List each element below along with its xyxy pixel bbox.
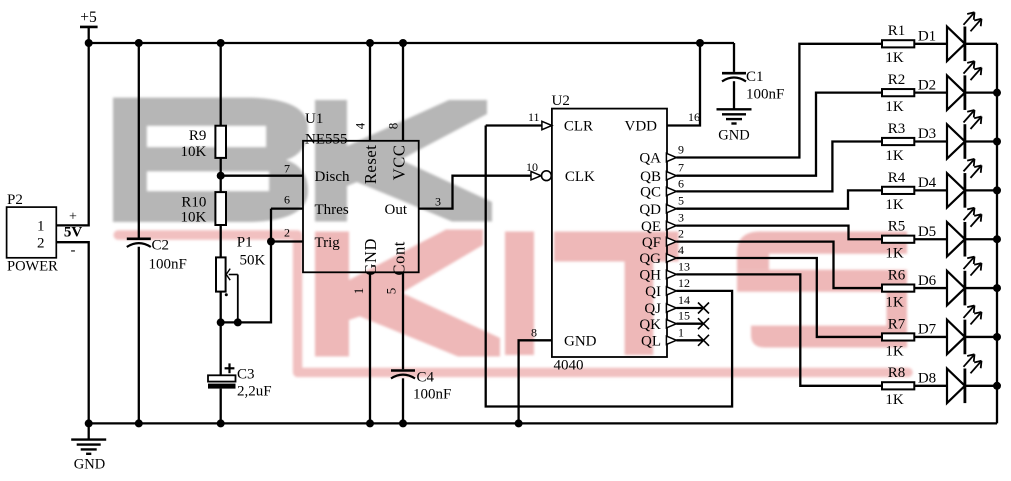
stub U2 QL pin1 not connected	[676, 339, 703, 341]
resistor R4 1K	[882, 170, 914, 213]
wire R4 to D4	[914, 189, 947, 191]
wire U2 QC pin6 to R3	[676, 142, 882, 192]
svg-text:Out: Out	[385, 202, 408, 218]
potentiometer P1 50K	[216, 235, 266, 323]
svg-text:GND: GND	[74, 457, 105, 473]
junction C1 / U2 VDD	[696, 39, 704, 47]
LED D8	[918, 354, 982, 403]
svg-text:R2: R2	[888, 72, 906, 88]
svg-text:CLR: CLR	[564, 119, 593, 135]
svg-text:R6: R6	[888, 267, 906, 283]
QB output chevron	[666, 172, 676, 180]
resistor R9 10K	[181, 43, 226, 192]
svg-text:8: 8	[386, 123, 401, 130]
svg-text:VCC: VCC	[389, 145, 408, 181]
svg-text:D1: D1	[918, 29, 936, 45]
svg-text:2: 2	[284, 226, 290, 240]
wire U1 pin8 VCC to rail	[402, 43, 404, 141]
wire U2 CLR pin11	[486, 124, 542, 126]
QE output chevron	[666, 221, 676, 229]
wire Thres pin6	[271, 207, 303, 209]
junction R9/R10/Disch	[217, 172, 225, 180]
resistor R7 1K	[882, 316, 914, 359]
svg-text:13: 13	[678, 259, 690, 273]
svg-text:4040: 4040	[554, 358, 584, 374]
wire U2 QG pin4 to R7	[676, 258, 882, 337]
svg-text:1K: 1K	[885, 148, 904, 164]
junction Trig	[267, 238, 275, 246]
svg-text:D5: D5	[918, 224, 936, 240]
svg-text:100nF: 100nF	[149, 257, 187, 273]
wire P1 wiper down	[237, 275, 239, 323]
QA output chevron	[666, 153, 676, 161]
junction ground C3	[217, 419, 225, 427]
QC output chevron	[666, 187, 676, 195]
junction U1 pin4	[366, 39, 374, 47]
svg-text:1K: 1K	[885, 343, 904, 359]
resistor R5 1K	[882, 219, 914, 262]
watermark pink letter I	[505, 232, 534, 356]
wire R6 to D6	[914, 287, 947, 289]
wire D4 cathode to LED rail	[965, 189, 997, 191]
capacitor C4 100nF	[391, 370, 451, 424]
svg-text:C1: C1	[746, 69, 764, 85]
svg-text:6: 6	[284, 193, 290, 207]
wire Disch pin7	[221, 175, 303, 177]
stub U2 QK pin15 not connected	[676, 323, 703, 325]
watermark pink underline swoosh	[118, 235, 908, 372]
wire U2 QB pin7 to R2	[676, 93, 882, 176]
junction wiper row right	[234, 318, 242, 326]
svg-text:1K: 1K	[885, 392, 904, 408]
QI output chevron	[666, 287, 676, 295]
svg-text:QF: QF	[642, 235, 661, 251]
wire P2 pin1 to +5 rail	[56, 43, 88, 225]
svg-text:50K: 50K	[240, 253, 266, 269]
wire Trig pin2	[271, 240, 303, 242]
svg-text:Thres: Thres	[315, 202, 349, 218]
wire D8 cathode to LED rail	[965, 385, 997, 387]
svg-text:5: 5	[678, 194, 684, 208]
svg-text:D2: D2	[918, 77, 936, 93]
svg-text:D8: D8	[918, 370, 936, 386]
wire LED cathode rail	[996, 44, 998, 424]
junction ground U1 pin1	[366, 419, 374, 427]
junction LED rail row 6	[993, 284, 1001, 292]
wire U1 pin4 Reset to rail	[369, 43, 371, 141]
wire D3 cathode to LED rail	[965, 140, 997, 142]
svg-text:2,2uF: 2,2uF	[237, 384, 272, 400]
wire CLR loop to QI pin12	[486, 126, 732, 407]
svg-text:P2: P2	[7, 192, 23, 208]
svg-text:QG: QG	[639, 251, 661, 267]
svg-text:POWER: POWER	[7, 259, 58, 275]
CLK inversion bubble	[542, 171, 552, 181]
svg-text:3: 3	[435, 195, 441, 209]
svg-text:2: 2	[678, 227, 684, 241]
svg-text:+: +	[69, 210, 77, 225]
wire ground rail	[89, 422, 997, 424]
ground symbol C1	[717, 108, 752, 110]
QF output chevron	[666, 237, 676, 245]
junction LED rail row 4	[993, 186, 1001, 194]
svg-text:1K: 1K	[885, 294, 904, 310]
svg-text:100nF: 100nF	[413, 387, 451, 403]
junction ground C2	[135, 419, 143, 427]
svg-text:10: 10	[526, 160, 538, 174]
svg-text:5: 5	[384, 288, 399, 295]
wire junction row to Thres/Trig vertical	[221, 209, 271, 323]
watermark pink letter T	[554, 232, 679, 356]
svg-text:12: 12	[678, 276, 690, 290]
svg-text:10K: 10K	[181, 210, 207, 226]
svg-text:D4: D4	[918, 175, 937, 191]
QK output chevron	[666, 320, 676, 328]
wire D5 cathode to LED rail	[965, 238, 997, 240]
svg-text:D6: D6	[918, 273, 937, 289]
stub U2 QJ pin14 not connected	[676, 307, 703, 309]
svg-text:3: 3	[678, 211, 684, 225]
wire D7 cathode to LED rail	[965, 336, 997, 338]
svg-text:Cont: Cont	[389, 241, 408, 276]
svg-text:Reset: Reset	[361, 145, 380, 185]
svg-text:2: 2	[37, 235, 45, 251]
svg-text:7: 7	[284, 161, 290, 175]
svg-text:1K: 1K	[885, 197, 904, 213]
svg-text:R9: R9	[189, 128, 207, 144]
QL output chevron	[666, 336, 676, 344]
watermark pink letter S	[737, 232, 907, 348]
LED D4	[918, 159, 982, 208]
wire R1 to D1	[914, 43, 947, 45]
svg-text:R5: R5	[888, 219, 906, 235]
junction LED rail row 8	[993, 382, 1001, 390]
wire P2 pin2 to ground rail	[56, 242, 88, 423]
svg-text:R3: R3	[888, 121, 906, 137]
svg-text:R8: R8	[888, 365, 906, 381]
junction LED rail row 5	[993, 235, 1001, 243]
connector P2 POWER	[7, 192, 83, 275]
svg-text:D3: D3	[918, 126, 936, 142]
watermark pink letter K	[315, 230, 500, 357]
wire U2 QD pin5 to R4	[676, 190, 882, 208]
wire U2 QH pin13 to R8	[676, 274, 882, 385]
svg-text:QE: QE	[641, 219, 661, 235]
wire R5 to D5	[914, 238, 947, 240]
svg-text:R7: R7	[888, 316, 906, 332]
counter IC U2 4040	[552, 93, 668, 373]
power flag +5	[80, 9, 98, 43]
resistor R8 1K	[882, 365, 914, 408]
LED D6	[918, 257, 982, 306]
resistor R2 1K	[882, 72, 914, 115]
no-connect X mark QJ	[698, 303, 709, 314]
svg-text:CLK: CLK	[565, 169, 595, 185]
junction ground P2	[85, 419, 93, 427]
wire R7 to D7	[914, 336, 947, 338]
svg-text:16: 16	[688, 110, 700, 124]
QG output chevron	[666, 254, 676, 262]
QJ output chevron	[666, 304, 676, 312]
timer IC U1 NE555	[303, 111, 419, 276]
svg-text:C3: C3	[237, 367, 255, 383]
no-connect X mark QL	[698, 335, 709, 346]
LED D7	[918, 305, 982, 354]
svg-text:1: 1	[678, 325, 684, 339]
junction U2 GND rail	[515, 419, 523, 427]
wire D1 cathode to LED rail	[965, 43, 997, 45]
wire D6 cathode to LED rail	[965, 287, 997, 289]
junction LED rail row 3	[993, 138, 1001, 146]
wire U1 Out pin3 to U2 CLK	[419, 176, 531, 209]
capacitor C1 100nF	[700, 43, 784, 109]
svg-text:QK: QK	[639, 317, 661, 333]
wire U1 pin1 GND to ground rail	[369, 272, 371, 423]
svg-text:1K: 1K	[885, 50, 904, 66]
svg-text:GND: GND	[361, 238, 380, 276]
svg-text:D7: D7	[918, 322, 937, 338]
svg-text:QA: QA	[639, 151, 661, 167]
QD output chevron	[666, 205, 676, 213]
svg-text:4: 4	[678, 243, 684, 257]
svg-text:10K: 10K	[181, 144, 207, 160]
wire U2 QE pin3 to R5	[676, 226, 882, 240]
svg-text:1: 1	[37, 219, 45, 235]
svg-text:QH: QH	[639, 268, 661, 284]
LED D3	[918, 110, 982, 159]
svg-text:4: 4	[353, 122, 368, 129]
svg-text:14: 14	[678, 293, 690, 307]
svg-text:QB: QB	[640, 169, 661, 185]
svg-text:GND: GND	[564, 334, 597, 350]
junction U1 pin8	[399, 39, 407, 47]
svg-text:C2: C2	[152, 238, 170, 254]
ground symbol GND	[71, 423, 106, 472]
junction C2 top	[135, 39, 143, 47]
svg-text:-: -	[71, 243, 76, 259]
QH output chevron	[666, 270, 676, 278]
svg-text:Disch: Disch	[315, 169, 350, 185]
svg-text:QI: QI	[645, 284, 661, 300]
svg-text:6: 6	[678, 176, 684, 190]
junction +5 / P2 pin1	[85, 39, 93, 47]
wire U1 pin5 Cont	[402, 272, 404, 369]
junction R9 top	[217, 39, 225, 47]
svg-text:R4: R4	[888, 170, 906, 186]
svg-text:1K: 1K	[885, 246, 904, 262]
svg-text:U2: U2	[552, 93, 570, 109]
wire R2 to D2	[914, 92, 947, 94]
CLK input chevron	[531, 172, 541, 180]
svg-text:11: 11	[528, 110, 540, 124]
svg-text:100nF: 100nF	[746, 87, 784, 103]
wire R3 to D3	[914, 140, 947, 142]
no-connect X mark QK	[698, 318, 709, 329]
junction LED rail row 2	[993, 89, 1001, 97]
resistor R3 1K	[882, 121, 914, 164]
wire U2 QF pin2 to R6	[676, 242, 882, 288]
svg-text:1: 1	[351, 288, 366, 295]
junction LED rail row 7	[993, 333, 1001, 341]
wire D2 cathode to LED rail	[965, 92, 997, 94]
CLR input chevron	[542, 121, 552, 129]
svg-text:+5: +5	[80, 9, 97, 26]
svg-text:U1: U1	[305, 111, 323, 127]
capacitor C3 2,2uF polarized	[208, 322, 272, 423]
junction ground C4	[399, 419, 407, 427]
svg-text:QD: QD	[639, 202, 661, 218]
junction wiper row left	[217, 318, 225, 326]
wire U2 GND pin8 to ground rail	[519, 340, 552, 423]
LED D5	[918, 208, 982, 257]
wire U2 QA pin9 to R1	[676, 44, 882, 158]
svg-text:7: 7	[678, 161, 684, 175]
svg-text:5V: 5V	[64, 224, 83, 240]
svg-text:P1: P1	[237, 235, 253, 251]
wire U2 VDD pin16 to rail	[667, 43, 700, 126]
LED D2	[918, 61, 982, 110]
svg-text:8: 8	[531, 325, 537, 339]
svg-text:QC: QC	[640, 185, 661, 201]
svg-text:9: 9	[678, 143, 684, 157]
resistor R6 1K	[882, 267, 914, 310]
wire R8 to D8	[914, 385, 947, 387]
svg-text:1K: 1K	[885, 99, 904, 115]
svg-text:QJ: QJ	[644, 301, 661, 317]
watermark gray letter B	[113, 98, 308, 222]
svg-text:R1: R1	[888, 23, 906, 39]
svg-text:R10: R10	[181, 195, 206, 211]
svg-text:C4: C4	[417, 370, 435, 386]
capacitor C2 100nF	[127, 43, 187, 423]
svg-text:GND: GND	[718, 128, 749, 144]
svg-text:15: 15	[678, 309, 690, 323]
resistor R1 1K	[882, 23, 914, 66]
watermark gray letter K	[315, 100, 492, 222]
resistor R10 10K	[181, 192, 226, 257]
svg-text:NE555: NE555	[305, 132, 348, 148]
LED D1	[918, 12, 982, 61]
svg-text:VDD: VDD	[625, 119, 658, 135]
svg-text:QL: QL	[641, 334, 661, 350]
wire +5 rail	[89, 42, 700, 44]
svg-text:Trig: Trig	[315, 235, 341, 251]
